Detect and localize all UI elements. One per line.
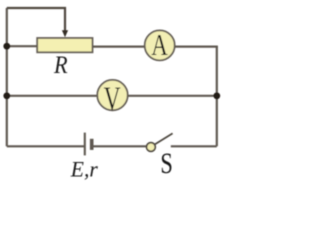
ammeter U: meter circle xyxy=(145,30,175,60)
battery long plate (+) xyxy=(84,133,86,156)
wire: ammeter to right corner xyxy=(175,45,218,47)
wire: battery to switch xyxy=(92,145,146,147)
resistor R (rheostat body) xyxy=(37,38,92,52)
wire: rheostat wiper loop (top) xyxy=(7,8,65,32)
svg-text:A: A xyxy=(151,28,168,62)
voltmeter U: meter circle xyxy=(97,80,127,110)
node dot: left/resistor row xyxy=(3,43,10,50)
wire: left node to voltmeter xyxy=(7,95,98,97)
wire: left vertical bus xyxy=(6,8,8,146)
switch S: pivot contact circle xyxy=(147,143,156,152)
svg-text:S: S xyxy=(160,147,172,180)
node dot: right/voltmeter row xyxy=(213,92,220,99)
svg-text:V: V xyxy=(104,81,121,118)
wire: switch right contact to corner xyxy=(171,145,217,147)
wire: voltmeter to right node xyxy=(128,95,217,97)
wire: bottom left run to battery xyxy=(7,145,85,147)
node dot: left/voltmeter row xyxy=(3,92,10,99)
svg-text:R: R xyxy=(53,52,68,80)
svg-text:E,r: E,r xyxy=(70,157,98,181)
switch S: lever arm (open) xyxy=(155,133,173,144)
wire: left node to resistor xyxy=(7,45,37,47)
wiper arrow onto rheostat xyxy=(62,30,68,37)
wire: resistor to ammeter xyxy=(93,45,145,47)
battery short plate (-) xyxy=(90,139,94,150)
wire: right vertical bus xyxy=(216,47,218,147)
